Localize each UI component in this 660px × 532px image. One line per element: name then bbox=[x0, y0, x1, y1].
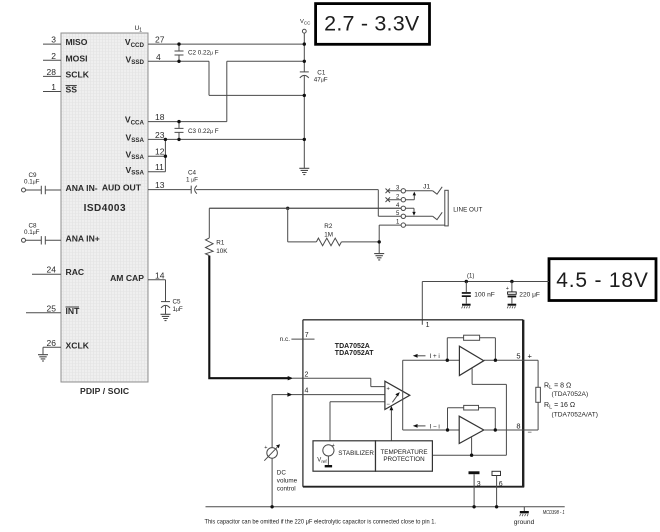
svg-text:SCLK: SCLK bbox=[66, 70, 90, 80]
svg-text:SS: SS bbox=[66, 85, 78, 95]
svg-text:+: + bbox=[332, 443, 335, 449]
svg-text:Vref: Vref bbox=[317, 458, 327, 464]
svg-text:1 μF: 1 μF bbox=[186, 177, 198, 184]
svg-text:+: + bbox=[386, 386, 390, 392]
svg-text:100 nF: 100 nF bbox=[474, 291, 495, 298]
svg-text:MCD398 - 1: MCD398 - 1 bbox=[543, 510, 565, 516]
svg-text:C3 0.22μ F: C3 0.22μ F bbox=[188, 128, 219, 135]
svg-text:R1: R1 bbox=[216, 240, 225, 247]
svg-text:(TDA7052A): (TDA7052A) bbox=[552, 391, 589, 398]
svg-text:27: 27 bbox=[155, 35, 165, 45]
svg-text:28: 28 bbox=[47, 67, 57, 77]
svg-text:(TDA7052A/AT): (TDA7052A/AT) bbox=[552, 411, 598, 418]
svg-text:4.5 - 18V: 4.5 - 18V bbox=[556, 269, 648, 292]
svg-text:(1): (1) bbox=[467, 274, 474, 280]
svg-text:23: 23 bbox=[155, 130, 165, 140]
svg-text:VCC: VCC bbox=[300, 19, 311, 25]
svg-text:C2 0.22μ F: C2 0.22μ F bbox=[188, 50, 219, 57]
svg-text:6: 6 bbox=[499, 481, 503, 488]
svg-text:MISO: MISO bbox=[66, 37, 88, 47]
svg-text:TEMPERATURE: TEMPERATURE bbox=[380, 449, 427, 456]
svg-text:+: + bbox=[528, 352, 533, 361]
svg-text:ISD4003: ISD4003 bbox=[84, 203, 126, 214]
svg-text:26: 26 bbox=[47, 338, 57, 348]
svg-text:−: − bbox=[528, 427, 533, 436]
svg-text:4: 4 bbox=[156, 52, 161, 62]
svg-text:AUD OUT: AUD OUT bbox=[102, 183, 142, 193]
svg-text:I − i: I − i bbox=[430, 423, 440, 430]
svg-text:STABILIZER: STABILIZER bbox=[338, 450, 374, 457]
svg-text:C5: C5 bbox=[173, 298, 182, 305]
svg-text:1: 1 bbox=[51, 82, 56, 92]
svg-text:0.1μF: 0.1μF bbox=[24, 179, 40, 186]
svg-text:I + i: I + i bbox=[430, 353, 440, 360]
svg-text:ANA IN-: ANA IN- bbox=[66, 183, 98, 193]
svg-text:n.c.: n.c. bbox=[280, 336, 290, 343]
svg-text:This capacitor can be omitted: This capacitor can be omitted if the 220… bbox=[205, 520, 437, 526]
svg-text:0.1μF: 0.1μF bbox=[24, 229, 40, 236]
svg-text:12: 12 bbox=[155, 147, 165, 157]
svg-text:8: 8 bbox=[516, 422, 520, 431]
svg-text:2: 2 bbox=[305, 371, 309, 378]
svg-text:MOSI: MOSI bbox=[66, 53, 88, 63]
svg-text:ground: ground bbox=[514, 519, 535, 526]
svg-text:LINE OUT: LINE OUT bbox=[453, 206, 482, 213]
svg-text:PDIP / SOIC: PDIP / SOIC bbox=[80, 386, 129, 396]
svg-text:2.7 - 3.3V: 2.7 - 3.3V bbox=[324, 12, 420, 36]
svg-text:1μF: 1μF bbox=[173, 306, 183, 313]
svg-text:10K: 10K bbox=[216, 248, 228, 255]
svg-text:14: 14 bbox=[155, 270, 165, 280]
svg-text:3: 3 bbox=[477, 481, 481, 488]
svg-text:47μF: 47μF bbox=[314, 76, 328, 83]
svg-text:1: 1 bbox=[426, 322, 430, 329]
svg-text:R2: R2 bbox=[324, 223, 333, 230]
svg-text:4: 4 bbox=[305, 388, 309, 395]
svg-text:2: 2 bbox=[51, 51, 56, 61]
svg-text:PROTECTION: PROTECTION bbox=[383, 456, 425, 463]
svg-text:220 μF: 220 μF bbox=[519, 291, 540, 298]
svg-text:1M: 1M bbox=[324, 232, 333, 239]
svg-text:7: 7 bbox=[305, 332, 309, 339]
svg-text:ANA IN+: ANA IN+ bbox=[66, 233, 100, 243]
svg-text:DC: DC bbox=[277, 470, 287, 477]
svg-text:24: 24 bbox=[47, 265, 57, 275]
svg-text:XCLK: XCLK bbox=[66, 340, 90, 350]
svg-text:AM CAP: AM CAP bbox=[110, 273, 144, 283]
svg-text:11: 11 bbox=[155, 162, 164, 172]
svg-text:J1: J1 bbox=[423, 184, 430, 191]
svg-text:−: − bbox=[386, 402, 390, 408]
svg-text:13: 13 bbox=[155, 180, 165, 190]
svg-text:RAC: RAC bbox=[66, 267, 85, 277]
svg-text:5: 5 bbox=[516, 352, 520, 361]
svg-text:TDA7052AT: TDA7052AT bbox=[335, 350, 374, 357]
svg-text:volume: volume bbox=[277, 478, 298, 485]
svg-text:control: control bbox=[277, 486, 296, 493]
svg-text:+: + bbox=[264, 445, 267, 451]
svg-text:25: 25 bbox=[47, 303, 57, 313]
svg-text:+: + bbox=[506, 286, 509, 292]
svg-text:3: 3 bbox=[51, 35, 56, 45]
svg-text:C4: C4 bbox=[188, 169, 197, 176]
svg-text:18: 18 bbox=[155, 112, 165, 122]
